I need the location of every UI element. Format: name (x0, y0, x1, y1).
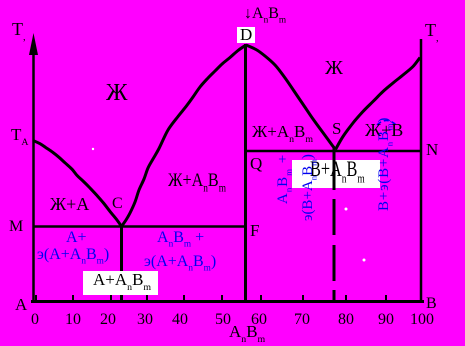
white patch behind D label (237, 27, 255, 43)
white box A+AnBm (83, 271, 158, 295)
label T (temperature axis) (12, 20, 26, 38)
white speck (92, 148, 94, 150)
axis number 70 (294, 312, 310, 328)
label Ж+A (50, 195, 89, 213)
label Ж+AnBm (right small) (252, 123, 313, 140)
box text B+AnBm (310, 158, 365, 180)
label M (9, 219, 23, 235)
label D (compound melting point) (240, 26, 252, 43)
blue label AnBm+ (157, 230, 204, 246)
label arrow AnBm (top) (244, 6, 286, 22)
composition axis (bottom) (31, 300, 424, 303)
liquidus curve Ta-C (33, 141, 122, 227)
blue rotated label э(B+AnBm) (301, 154, 316, 221)
axis number 30 (137, 312, 153, 328)
label Ж (liquid, left) (106, 81, 128, 105)
label A (origin) (15, 296, 27, 313)
label S (right eutectic point) (332, 120, 341, 137)
axis ticks (36, 294, 386, 301)
label C (left eutectic point) (112, 196, 123, 212)
label Ж+B (365, 121, 403, 139)
blue rotated label AnBm+ (276, 154, 291, 204)
axis number 60 (251, 312, 267, 328)
compound AnBm vertical line through D (244, 44, 247, 301)
white box B+AnBm (292, 160, 380, 188)
axis number 50 (215, 312, 231, 328)
liquidus curve D-S (246, 45, 336, 150)
liquidus curve C-D (122, 45, 247, 227)
axis number 10 (65, 312, 81, 328)
axis number 80 (338, 312, 354, 328)
temperature axis (left, with arrow) (32, 50, 35, 302)
label N (426, 141, 438, 158)
label T (right, component B) (425, 21, 439, 39)
label Ta (11, 126, 29, 143)
axis number 0 (31, 312, 39, 328)
label AnBm (bottom axis) (229, 323, 265, 340)
right axis (component B) (420, 39, 423, 302)
label Ж+AnBm (middle) (168, 171, 226, 190)
liquidus curve S-Tb (336, 58, 421, 150)
white speck (363, 259, 366, 262)
blue rotated label B+э(B+AnBm) (377, 117, 392, 211)
blue label э(A+AnBm) right (144, 254, 216, 270)
blue label э(A+AnBm) left (37, 247, 109, 263)
eutectic vertical line below C (120, 227, 123, 301)
white speck (345, 208, 348, 211)
label Ж (liquid, right) (325, 58, 343, 78)
solidus line Q-N (245, 150, 421, 153)
box text A+AnBm (93, 271, 151, 288)
axis number 20 (100, 312, 116, 328)
dashed vertical line below S (333, 148, 336, 301)
axis number 100 (410, 312, 434, 328)
axis arrowhead (29, 33, 38, 55)
blue label A+ (66, 230, 87, 246)
label F (250, 222, 259, 239)
axis number 90 (378, 312, 394, 328)
label B (right end) (426, 296, 437, 312)
solidus line M-F (33, 225, 246, 228)
blue dashed arc over Ж+B (377, 121, 396, 126)
label Q (250, 155, 262, 172)
axis number 40 (172, 312, 188, 328)
